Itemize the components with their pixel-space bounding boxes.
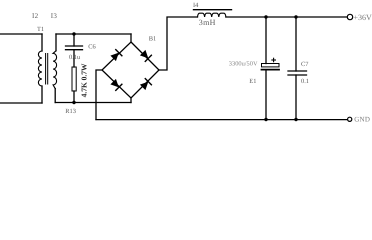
- svg-text:I4: I4: [193, 2, 199, 9]
- E1 plus sign: [271, 58, 276, 63]
- junction dot E1 top: [264, 15, 267, 18]
- wire C7 bottom lead: [295, 75, 297, 120]
- capacitor C6: [66, 46, 83, 50]
- svg-text:T1: T1: [37, 26, 44, 33]
- wire C6 top lead: [73, 34, 75, 46]
- capacitor E1 positive plate box: [262, 64, 280, 67]
- wire bridge bottom stub: [130, 98, 132, 103]
- wire secondary bottom lead: [54, 89, 56, 103]
- bridge B1 diamond: [102, 42, 159, 98]
- wire primary top: [0, 33, 42, 35]
- svg-text:0.1: 0.1: [301, 78, 309, 85]
- junction dot C7 top: [294, 15, 297, 18]
- svg-text:E1: E1: [249, 78, 256, 85]
- wire secondary bottom: [55, 102, 131, 104]
- svg-text:+36V: +36V: [354, 13, 372, 22]
- terminal +36V: [347, 14, 352, 19]
- svg-text:GND: GND: [354, 116, 370, 124]
- wire secondary top: [56, 33, 131, 35]
- wire E1 bottom lead: [265, 71, 267, 120]
- junction dot C7 bottom: [294, 118, 297, 121]
- svg-text:I3: I3: [51, 12, 58, 20]
- wire ground rail: [96, 119, 348, 121]
- wire primary bottom lead: [41, 86, 43, 103]
- wire bridge minus to ground rail: [96, 70, 102, 120]
- transformer T1 secondary winding: [53, 51, 57, 89]
- svg-text:C6: C6: [88, 44, 95, 51]
- svg-text:3300u/50V: 3300u/50V: [229, 61, 258, 68]
- wire E1 top lead: [265, 17, 267, 64]
- svg-text:4.7K 0.7W: 4.7K 0.7W: [79, 63, 88, 97]
- wire top rail to +36V: [226, 16, 347, 18]
- diode D bottom-right: [139, 78, 152, 91]
- wire R13 bottom lead: [73, 91, 75, 103]
- svg-text:C7: C7: [301, 61, 309, 68]
- diode D top-right: [139, 49, 152, 62]
- wire secondary top lead: [55, 34, 57, 51]
- resistor R13: [72, 67, 76, 91]
- wire C7 top lead: [295, 17, 297, 71]
- transformer T1 primary winding: [38, 51, 42, 86]
- svg-text:0.1u: 0.1u: [69, 54, 81, 61]
- svg-text:B1: B1: [149, 36, 156, 43]
- diode D top-left: [110, 49, 123, 62]
- junction dot E1 bottom: [264, 118, 267, 121]
- wire bridge plus up to rail: [159, 17, 198, 70]
- inductor I4 core bar: [194, 9, 232, 11]
- svg-text:3mH: 3mH: [199, 18, 216, 27]
- junction dot C6 top: [72, 32, 75, 35]
- transformer T1 core: [46, 54, 48, 85]
- wire bridge top stub: [130, 34, 132, 42]
- wire primary top lead: [41, 34, 43, 51]
- capacitor E1 bottom plate: [262, 69, 280, 71]
- terminal GND: [348, 117, 352, 121]
- junction dot R13 bottom: [72, 101, 75, 104]
- inductor I4 winding: [198, 13, 226, 17]
- svg-text:I2: I2: [32, 12, 39, 20]
- svg-text:R13: R13: [65, 108, 76, 115]
- wire C6 to R13: [73, 50, 75, 67]
- capacitor C7: [288, 71, 307, 75]
- wire primary bottom: [0, 102, 42, 104]
- diode D bottom-left: [110, 78, 123, 91]
